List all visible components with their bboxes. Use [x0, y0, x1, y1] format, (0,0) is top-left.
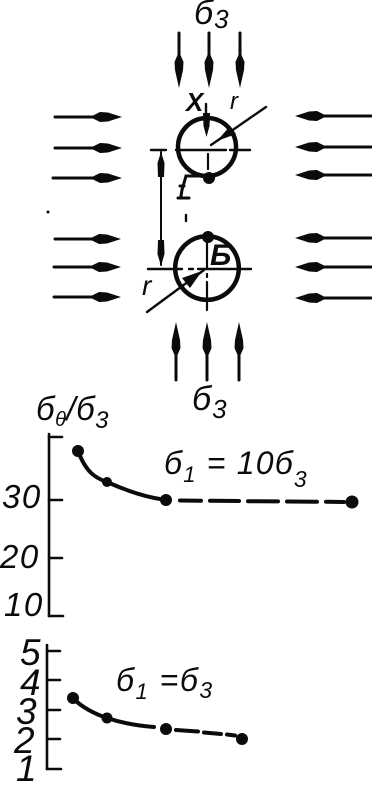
lower curve solid [73, 698, 154, 727]
sigma3 top arrow 2 [205, 33, 214, 88]
dimension line between holes [158, 152, 165, 266]
vertical dash below upper centre [207, 154, 209, 169]
vertical line lower circle [206, 241, 208, 310]
lower curve point 2 [102, 713, 113, 724]
upper curve dashed part [180, 501, 344, 503]
sigma3 bottom arrow 3 [235, 322, 244, 380]
svg-text:1: 1 [16, 748, 37, 786]
sigma3 bottom arrow 1 [172, 322, 181, 380]
sigma3 top arrow 1 [175, 33, 184, 88]
small dash between holes [185, 215, 187, 221]
upper curve point 3 [160, 494, 172, 506]
dash-dot centre line upper circle [151, 149, 250, 151]
dash-dot centre line lower circle [148, 268, 251, 270]
speckle [47, 211, 50, 214]
svg-text:б1 =б3: б1 =б3 [116, 662, 214, 704]
upper curve end point [346, 496, 359, 509]
svg-text:Б: Б [210, 239, 231, 272]
sigma3 top arrow 3 [236, 33, 245, 88]
arrow from X into circle [203, 104, 210, 137]
svg-text:б3: б3 [194, 0, 230, 34]
lower graph y-axis [47, 645, 61, 769]
lower curve point 1 [67, 692, 79, 704]
right arrows group [295, 111, 371, 303]
radius line lower circle [147, 270, 204, 312]
upper curve point 2 [102, 477, 112, 487]
sigma3 bottom arrow 2 [203, 322, 212, 380]
lower curve dashed part [176, 730, 235, 736]
upper curve point 1 [72, 445, 84, 457]
svg-text:r: r [230, 88, 239, 115]
point at top of lower circle [202, 231, 214, 243]
lower circle (hole B) [175, 236, 239, 300]
svg-text:20: 20 [0, 538, 40, 575]
radius line upper circle [211, 107, 266, 145]
left arrows group [53, 112, 122, 302]
svg-text:30: 30 [2, 478, 42, 515]
upper circle (hole A) [178, 118, 236, 176]
upper graph y-axis [49, 434, 63, 616]
upper curve solid [78, 451, 168, 500]
svg-text:10: 10 [4, 586, 44, 623]
lower curve end point [236, 733, 248, 745]
point at bottom of upper circle [203, 172, 215, 184]
lower curve point 3 [160, 723, 172, 735]
label L (point at hole bottom) [178, 176, 203, 198]
svg-text:X: X [184, 87, 205, 117]
